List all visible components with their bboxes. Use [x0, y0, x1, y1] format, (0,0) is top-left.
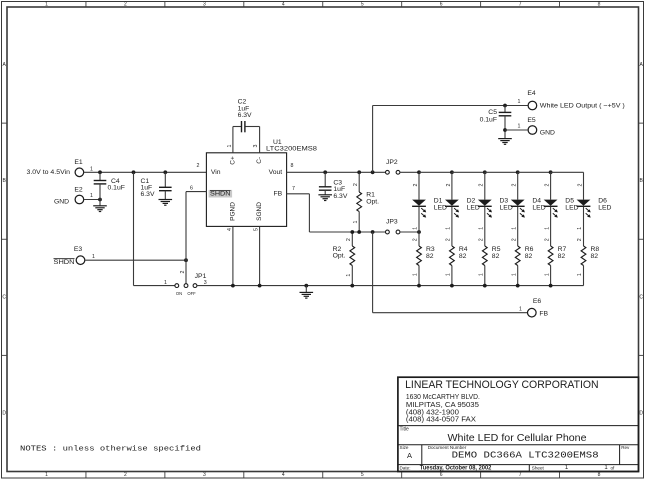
svg-text:D3: D3	[500, 198, 509, 205]
junction D5 top	[549, 170, 553, 174]
svg-text:2: 2	[512, 183, 518, 186]
svg-text:4: 4	[227, 228, 233, 231]
terminal E1	[75, 168, 84, 177]
svg-text:1: 1	[413, 227, 419, 230]
junction D1/R3	[417, 230, 421, 234]
svg-text:OFF: OFF	[187, 291, 196, 296]
svg-text:1: 1	[544, 227, 550, 230]
svg-text:A: A	[407, 451, 412, 460]
wire U1 pin4 PGND to ground rail	[232, 226, 234, 285]
junction ground symbol/rail	[304, 284, 308, 288]
junction D2 top	[450, 170, 454, 174]
svg-text:A: A	[3, 62, 7, 68]
svg-text:White LED Output ( ~+5V ): White LED Output ( ~+5V )	[540, 102, 625, 109]
svg-text:8: 8	[598, 1, 601, 7]
junction E6 riser on FB	[371, 230, 375, 234]
resistor R3 value 82	[418, 232, 420, 246]
svg-text:82: 82	[525, 253, 533, 260]
svg-text:5: 5	[254, 228, 260, 231]
svg-text:6: 6	[190, 185, 193, 191]
svg-text:SGND: SGND	[256, 202, 263, 221]
svg-text:1: 1	[164, 280, 167, 286]
svg-text:2: 2	[545, 183, 551, 186]
svg-text:1: 1	[577, 227, 583, 230]
svg-text:1: 1	[446, 227, 452, 230]
svg-text:2: 2	[346, 238, 352, 241]
svg-text:FB: FB	[539, 310, 548, 317]
U1 pin name SHDN (highlighted)	[209, 190, 233, 198]
svg-text:E4: E4	[527, 90, 536, 97]
junction D1 top	[417, 170, 421, 174]
junction R4 bottom	[450, 284, 454, 288]
svg-text:E1: E1	[74, 159, 83, 166]
node junction JP1 branch on Vin	[132, 170, 136, 174]
svg-text:82: 82	[426, 253, 434, 260]
svg-text:2: 2	[124, 1, 127, 7]
svg-text:Size: Size	[400, 445, 409, 450]
svg-text:1: 1	[518, 123, 521, 129]
resistor R4 value 82	[451, 232, 453, 246]
svg-text:(408) 434-0507 FAX: (408) 434-0507 FAX	[406, 414, 476, 423]
junction C5	[503, 104, 507, 108]
IC U1 LTC3200EMS8 body	[206, 153, 286, 227]
junction R2 top on FB row	[350, 230, 354, 234]
svg-text:E5: E5	[527, 117, 536, 124]
jumper JP3	[386, 230, 390, 234]
junction R2/ground rail	[350, 284, 354, 288]
wire E2 to C4 node	[84, 199, 100, 201]
junction C3	[323, 170, 327, 174]
svg-text:82: 82	[591, 253, 599, 260]
svg-text:B: B	[3, 178, 7, 184]
svg-text:1: 1	[511, 273, 517, 276]
svg-text:1: 1	[45, 472, 48, 478]
svg-text:1: 1	[346, 274, 352, 277]
terminal E5	[528, 126, 537, 135]
svg-text:2: 2	[124, 472, 127, 478]
junction R7 bottom	[549, 284, 553, 288]
ground below C5	[498, 138, 512, 140]
svg-text:1: 1	[92, 254, 95, 260]
svg-text:C2: C2	[238, 98, 247, 105]
svg-text:D6: D6	[598, 198, 607, 205]
wire Vout rail U1 to JP2	[287, 171, 386, 173]
svg-text:C+: C+	[229, 156, 236, 165]
svg-text:PGND: PGND	[229, 202, 236, 221]
svg-text:SHDN: SHDN	[54, 259, 75, 266]
wire E5 to C5	[505, 129, 529, 131]
svg-text:2: 2	[577, 183, 583, 186]
resistor R1	[358, 172, 360, 192]
svg-text:JP3: JP3	[386, 219, 398, 226]
wire JP2 to D1	[400, 171, 419, 173]
svg-text:LED: LED	[598, 205, 611, 212]
terminal E3	[76, 256, 85, 265]
svg-text:0.1uF: 0.1uF	[108, 185, 125, 192]
ground below C1	[159, 199, 173, 201]
svg-text:B: B	[640, 178, 644, 184]
svg-text:5: 5	[361, 472, 364, 478]
svg-text:6: 6	[440, 472, 443, 478]
svg-text:1: 1	[518, 99, 521, 105]
svg-text:6: 6	[440, 1, 443, 7]
svg-text:NOTES : unless otherwise speci: NOTES : unless otherwise specified	[20, 446, 201, 454]
capacitor C2	[241, 121, 243, 132]
svg-text:1: 1	[446, 273, 452, 276]
svg-text:of: of	[611, 466, 616, 471]
svg-text:2: 2	[353, 183, 359, 186]
wire SHDN riser JP1 pin2 to U1 pin 6	[185, 192, 187, 284]
resistor R2	[351, 232, 353, 246]
svg-text:3.0V to 4.5Vin: 3.0V to 4.5Vin	[27, 169, 71, 176]
node junction C4 on Vin	[98, 170, 102, 174]
wire E3 to JP1 pin2 riser	[85, 259, 186, 261]
svg-text:E6: E6	[533, 298, 542, 305]
svg-text:2: 2	[446, 238, 452, 241]
svg-text:JP2: JP2	[386, 159, 398, 166]
svg-text:E3: E3	[74, 246, 83, 253]
capacitor C4	[99, 172, 101, 180]
svg-text:1: 1	[479, 227, 485, 230]
svg-text:1: 1	[544, 273, 550, 276]
svg-text:C: C	[639, 294, 643, 300]
svg-text:2: 2	[413, 238, 419, 241]
terminal E2	[75, 195, 84, 204]
svg-text:1: 1	[45, 1, 48, 7]
svg-text:2: 2	[511, 238, 517, 241]
svg-text:7: 7	[519, 1, 522, 7]
svg-text:3: 3	[203, 1, 206, 7]
svg-text:LINEAR TECHNOLOGY CORPORATION: LINEAR TECHNOLOGY CORPORATION	[405, 379, 599, 391]
svg-text:6.3V: 6.3V	[238, 112, 252, 119]
svg-text:2: 2	[180, 270, 186, 273]
wire U1 pin1 to C2	[232, 127, 234, 153]
jumper JP2	[386, 170, 390, 174]
svg-text:7: 7	[519, 472, 522, 478]
svg-text:6.3V: 6.3V	[333, 193, 347, 200]
svg-text:2: 2	[479, 238, 485, 241]
resistor R7 value 82	[550, 232, 552, 246]
terminal E4	[528, 101, 537, 110]
wire Vin to JP1 pin1	[133, 172, 135, 285]
wire U1 pin5 SGND to ground rail	[259, 226, 261, 285]
svg-text:1: 1	[413, 273, 419, 276]
terminal E6	[528, 308, 537, 317]
LED D6	[583, 172, 585, 199]
svg-text:JP1: JP1	[195, 273, 207, 280]
svg-text:D1: D1	[434, 198, 443, 205]
wire C2 to U1 pin3	[245, 126, 259, 128]
svg-text:2: 2	[413, 183, 419, 186]
junction R5 bottom	[483, 284, 487, 288]
svg-text:82: 82	[492, 253, 500, 260]
svg-text:1: 1	[604, 465, 608, 471]
svg-text:FB: FB	[274, 190, 283, 197]
svg-text:Sheet: Sheet	[532, 466, 545, 471]
svg-text:1: 1	[577, 273, 583, 276]
svg-text:8: 8	[598, 472, 601, 478]
svg-text:1: 1	[565, 465, 569, 471]
capacitor C1	[164, 172, 166, 187]
junction E3/JP1 riser	[184, 258, 188, 262]
svg-text:1: 1	[227, 144, 233, 147]
svg-text:DEMO DC366A LTC3200EMS8: DEMO DC366A LTC3200EMS8	[452, 450, 599, 461]
svg-text:SHDN: SHDN	[210, 190, 231, 197]
ground below C3	[318, 194, 332, 196]
node junction C1 on Vin	[163, 170, 167, 174]
svg-text:A: A	[640, 62, 644, 68]
svg-text:4: 4	[282, 1, 285, 7]
svg-text:Vin: Vin	[211, 169, 221, 176]
junction R6 bottom	[516, 284, 520, 288]
svg-text:1: 1	[353, 220, 359, 223]
junction PGND/rail	[231, 284, 235, 288]
svg-text:Vout: Vout	[269, 169, 283, 176]
svg-text:D4: D4	[532, 198, 541, 205]
svg-text:ON: ON	[176, 291, 182, 296]
wire Vin rail E1 to U1	[84, 171, 207, 173]
wire E4 riser and top lead	[372, 106, 374, 173]
svg-text:2: 2	[577, 238, 583, 241]
capacitor C5	[504, 106, 506, 113]
junction D4 top	[516, 170, 520, 174]
junction R3 bottom	[417, 284, 421, 288]
svg-text:1: 1	[519, 306, 522, 312]
wire E6 riser	[372, 232, 374, 313]
wire ground rail JP1 pin3 to R8	[197, 285, 584, 287]
svg-text:4: 4	[282, 472, 285, 478]
svg-text:D2: D2	[467, 198, 476, 205]
resistor R8 value 82	[583, 232, 585, 246]
svg-text:1: 1	[479, 273, 485, 276]
svg-text:Title: Title	[400, 427, 409, 433]
svg-text:D: D	[2, 410, 6, 416]
junction R1/R2 on FB	[357, 230, 361, 234]
svg-text:1: 1	[511, 227, 517, 230]
svg-text:GND: GND	[540, 130, 555, 137]
svg-text:E2: E2	[74, 186, 83, 193]
ground below C4	[93, 205, 107, 207]
svg-text:R1: R1	[366, 192, 375, 199]
junction R1	[357, 170, 361, 174]
svg-text:82: 82	[459, 253, 467, 260]
svg-text:1: 1	[90, 193, 93, 199]
svg-text:GND: GND	[54, 199, 69, 206]
svg-text:1: 1	[90, 166, 93, 172]
svg-text:Opt.: Opt.	[366, 199, 379, 206]
svg-text:2: 2	[544, 238, 550, 241]
svg-text:2: 2	[479, 183, 485, 186]
junction E5/C5	[503, 128, 507, 132]
svg-text:LTC3200EMS8: LTC3200EMS8	[266, 146, 317, 153]
junction SGND/rail	[258, 284, 262, 288]
svg-text:7: 7	[292, 186, 295, 192]
svg-text:2: 2	[197, 163, 200, 169]
svg-text:Rev: Rev	[621, 445, 630, 450]
svg-text:8: 8	[291, 163, 294, 169]
svg-text:C5: C5	[488, 109, 497, 116]
svg-text:Opt.: Opt.	[333, 253, 346, 260]
svg-text:White LED for Cellular Phone: White LED for Cellular Phone	[448, 433, 587, 444]
svg-text:C-: C-	[256, 157, 263, 164]
svg-text:3: 3	[253, 144, 259, 147]
junction E2/C4	[98, 198, 102, 202]
svg-text:Date:: Date:	[400, 466, 411, 471]
svg-text:D5: D5	[565, 198, 574, 205]
ground on rail	[305, 286, 307, 293]
svg-text:82: 82	[558, 253, 566, 260]
svg-text:C: C	[2, 294, 6, 300]
title block	[398, 377, 639, 471]
resistor R6 value 82	[517, 232, 519, 246]
junction D3 top	[483, 170, 487, 174]
svg-text:3: 3	[203, 472, 206, 478]
resistor R5 value 82	[484, 232, 486, 246]
jumper JP1	[175, 284, 179, 288]
svg-text:0.1uF: 0.1uF	[480, 117, 497, 124]
svg-text:6.3V: 6.3V	[141, 191, 155, 198]
junction E4 riser	[371, 170, 375, 174]
wire FB U1 to JP3	[287, 193, 310, 195]
svg-text:D: D	[639, 410, 643, 416]
svg-text:2: 2	[446, 183, 452, 186]
svg-text:Tuesday, October 08, 2002: Tuesday, October 08, 2002	[420, 465, 492, 472]
svg-text:5: 5	[361, 1, 364, 7]
wire JP3 to D1/R3 node	[400, 231, 419, 233]
capacitor C3	[324, 172, 326, 187]
